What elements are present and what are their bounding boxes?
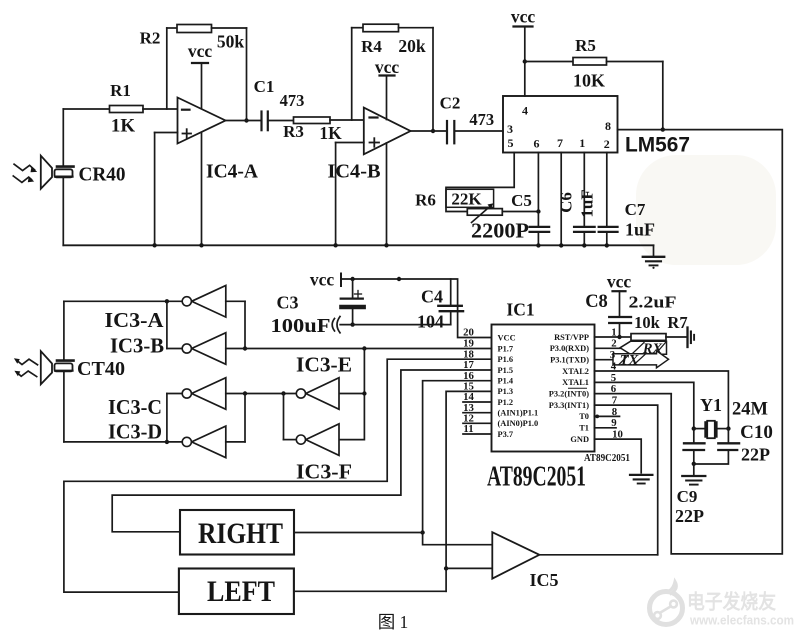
- junction IC4-B output node: [431, 129, 435, 133]
- svg-text:3: 3: [507, 122, 513, 136]
- svg-text:3: 3: [610, 349, 616, 361]
- svg-text:104: 104: [417, 312, 444, 332]
- svg-text:GND: GND: [570, 435, 589, 444]
- svg-text:IC3-C: IC3-C: [108, 395, 162, 419]
- svg-text:TX: TX: [620, 353, 639, 369]
- ground rail: [63, 244, 653, 246]
- capacitor C7: [599, 226, 618, 228]
- wire IC4-B output to C2: [411, 130, 447, 132]
- wire C1 to R3: [268, 120, 294, 122]
- wire R3 to IC4-B inverting input: [330, 119, 364, 121]
- svg-text:VCC: VCC: [498, 333, 516, 342]
- svg-text:R3: R3: [283, 122, 304, 141]
- inverter IC3-B: [192, 333, 226, 365]
- svg-text:P3.2(INT0): P3.2(INT0): [549, 390, 589, 399]
- junction IC4-A output node: [244, 118, 248, 122]
- svg-text:2: 2: [604, 137, 610, 151]
- svg-text:C3: C3: [277, 293, 299, 313]
- svg-text:C10: C10: [740, 422, 773, 443]
- resistor R1: [110, 106, 144, 113]
- svg-text:P1.2: P1.2: [498, 398, 514, 407]
- junction E/F output tie: [281, 391, 285, 395]
- IC1 left pin names: [498, 333, 539, 439]
- svg-text:1: 1: [611, 326, 616, 338]
- tone decoder LM567 body: [503, 96, 618, 153]
- resistor R6 variable: [467, 209, 502, 216]
- wire IC3-C input from IC3-E: [226, 393, 296, 395]
- svg-text:22P: 22P: [675, 506, 704, 526]
- svg-text:vcc: vcc: [375, 57, 400, 77]
- RX direction arrow: [620, 341, 667, 357]
- svg-text:1: 1: [579, 136, 585, 150]
- wire IC3-B output tie: [166, 301, 168, 348]
- wire IC3-F output tie: [283, 394, 285, 440]
- wire C5 to rail: [537, 232, 539, 246]
- wire IC1 pin 7 INT1 to IC5 output: [595, 405, 658, 555]
- svg-text:C1: C1: [254, 77, 275, 96]
- wire P1.3 net: [446, 391, 491, 591]
- capacitor C2: [446, 121, 448, 143]
- inverter IC3-A: [192, 286, 226, 318]
- junction C9 / C10 ground node: [692, 462, 696, 466]
- wire IC5 output: [539, 554, 657, 556]
- svg-text:IC1: IC1: [506, 300, 534, 320]
- inverter IC3-F: [306, 424, 339, 456]
- svg-text:4: 4: [522, 104, 528, 118]
- svg-text:100uF: 100uF: [271, 315, 331, 337]
- capacitor C4: [450, 279, 452, 305]
- wire IC1 pin 9 T1 stub: [595, 427, 617, 429]
- svg-text:7: 7: [557, 136, 563, 150]
- ground symbol below IC1: [630, 474, 652, 476]
- resistor R4 feedback: [351, 28, 353, 120]
- svg-text:6: 6: [534, 137, 540, 151]
- junction E input branch: [362, 391, 366, 395]
- svg-text:R1: R1: [110, 81, 131, 100]
- block LEFT: [179, 569, 294, 615]
- ground symbol rotated at R7: [686, 328, 688, 348]
- label box 22K of R6: [446, 189, 494, 207]
- wire IC1 pin 10 GND to ground: [595, 439, 642, 473]
- svg-text:LM567: LM567: [625, 134, 690, 157]
- wire IC1 pin 4 XTAL2 to crystal: [595, 371, 729, 429]
- svg-text:2: 2: [611, 338, 616, 350]
- wire P1.5 net to RIGHT box: [112, 370, 491, 532]
- svg-text:IC3-F: IC3-F: [296, 460, 352, 484]
- inverter IC3-E: [306, 378, 339, 410]
- svg-text:20k: 20k: [398, 36, 426, 56]
- junction XTAL1 / Y1 / C9: [692, 426, 696, 430]
- svg-text:vcc: vcc: [607, 272, 632, 292]
- LM567 pin numbers: [507, 104, 611, 152]
- wire branch to IC3-E and IC3-F inputs: [339, 349, 364, 440]
- wire LM567 pin 7 to rail: [560, 153, 562, 246]
- capacitor C5: [530, 226, 550, 228]
- svg-text:电子发烧友: 电子发烧友: [687, 590, 776, 614]
- svg-text:图 1: 图 1: [378, 612, 409, 632]
- wire IC3-D output to CT40 bottom: [64, 441, 182, 443]
- svg-text:P1.7: P1.7: [498, 344, 514, 353]
- wire IC1 pin 6 INT0: [595, 393, 672, 395]
- capacitor C8: [609, 316, 631, 318]
- ground symbol below C9: [693, 464, 695, 475]
- junction vcc / R5: [523, 59, 527, 63]
- svg-text:IC3-A: IC3-A: [105, 308, 165, 332]
- svg-text:C5: C5: [511, 191, 532, 210]
- wire LM567 pin 6 down: [537, 153, 539, 227]
- svg-text:1uF: 1uF: [578, 189, 597, 217]
- svg-text:22K: 22K: [451, 190, 482, 209]
- junction vcc / C3: [350, 277, 354, 281]
- wire R6 to pin6 node: [502, 211, 538, 213]
- svg-text:R7: R7: [667, 313, 687, 332]
- svg-text:C4: C4: [421, 287, 443, 307]
- svg-text:1uF: 1uF: [625, 220, 655, 240]
- wire CR40 bottom to ground rail: [62, 178, 64, 246]
- junction A/B input tie on P1.7 wire: [243, 346, 247, 350]
- wire IC1 pin 3 TXD: [595, 359, 614, 361]
- IC1 right pin numbers: [610, 326, 623, 440]
- capacitor C6: [574, 226, 595, 228]
- junction P1.7 / E-F input branch: [362, 346, 366, 350]
- svg-text:T0: T0: [579, 412, 589, 421]
- svg-text:P1.6: P1.6: [498, 355, 514, 364]
- inverter IC3-D: [192, 426, 226, 458]
- resistor R3: [294, 117, 331, 124]
- junction on vcc wire: [397, 277, 401, 281]
- wire CT40 top: [63, 301, 65, 360]
- svg-text:XTAL1: XTAL1: [562, 378, 589, 387]
- ground symbol at rail end: [653, 245, 655, 256]
- svg-text:22P: 22P: [741, 445, 770, 465]
- buffer IC5: [492, 532, 539, 578]
- IC1 left pin numbers: [463, 327, 474, 436]
- ultrasonic receiver CR40: [41, 156, 74, 189]
- CR40 incoming wave arrows: [13, 164, 37, 182]
- svg-text:1K: 1K: [111, 116, 136, 137]
- svg-text:IC3-E: IC3-E: [296, 353, 352, 377]
- wire C10 bottom to ground node: [694, 450, 729, 464]
- wire IC1 pin 8 T0 stub: [595, 415, 620, 417]
- wire LM567 pin 5 to R6: [446, 153, 514, 212]
- junction XTAL2 / Y1 / C10: [726, 426, 730, 430]
- svg-text:P3.3(INT1): P3.3(INT1): [549, 401, 589, 410]
- svg-text:C9: C9: [677, 487, 698, 506]
- svg-text:vcc: vcc: [511, 7, 536, 27]
- svg-text:AT89C2051: AT89C2051: [487, 462, 586, 493]
- wire P1.4 net to IC5 input 1: [423, 381, 493, 545]
- svg-text:R5: R5: [575, 36, 596, 55]
- wire IC3-A input: [226, 300, 245, 302]
- rail junction dots: [152, 243, 609, 247]
- svg-text:R2: R2: [140, 29, 161, 48]
- svg-text:1K: 1K: [319, 123, 342, 143]
- svg-text:CR40: CR40: [79, 164, 126, 186]
- wire IC1 pin 1 RST: [595, 336, 620, 338]
- wire IC1 pin 2 RXD: [595, 347, 621, 349]
- svg-text:473: 473: [280, 91, 305, 110]
- wire IC1 pin 5 XTAL1 to crystal: [595, 382, 694, 428]
- curved end marks: [337, 317, 340, 333]
- svg-text:(AIN0)P1.0: (AIN0)P1.0: [498, 419, 539, 428]
- svg-text:vcc: vcc: [310, 270, 335, 290]
- capacitor C3 electrolytic: [352, 279, 354, 298]
- IC1 pin 14-11 stubs: [463, 402, 492, 434]
- wire IC4-B plus input to rail: [336, 142, 364, 144]
- wire IC4-A negative supply to rail: [201, 133, 203, 245]
- IC1 right pin names: [549, 333, 589, 444]
- svg-text:50k: 50k: [217, 32, 245, 52]
- svg-text:vcc: vcc: [188, 41, 213, 61]
- capacitor C9: [693, 429, 695, 443]
- wire C3/C4 bottom: [340, 324, 451, 326]
- svg-text:C7: C7: [625, 200, 646, 219]
- svg-text:XTAL2: XTAL2: [562, 367, 589, 376]
- wire IC3-D input: [226, 441, 245, 443]
- svg-text:P1.3: P1.3: [498, 387, 514, 396]
- svg-text:P3.0(RXD): P3.0(RXD): [550, 344, 590, 353]
- svg-text:R6: R6: [415, 191, 436, 210]
- wire LEFT box output: [294, 590, 446, 592]
- crystal Y1: [694, 428, 705, 430]
- svg-text:IC4-A: IC4-A: [206, 161, 259, 183]
- svg-text:10k: 10k: [634, 313, 661, 332]
- microcontroller IC1 AT89C2051 body: [492, 325, 595, 452]
- svg-text:5: 5: [508, 136, 514, 150]
- svg-text:AT89C2051: AT89C2051: [584, 453, 630, 464]
- wire IC5 input 2: [446, 567, 492, 569]
- junction P1.3 / IC5 input 2: [444, 566, 448, 570]
- svg-text:RIGHT: RIGHT: [198, 517, 283, 550]
- svg-text:www.elecfans.com: www.elecfans.com: [689, 614, 794, 628]
- wire vcc to IC1 pin 20: [341, 279, 492, 338]
- svg-text:T1: T1: [579, 424, 589, 433]
- svg-text:RST/VPP: RST/VPP: [554, 333, 589, 342]
- svg-text:Y1: Y1: [700, 395, 722, 415]
- svg-text:C6: C6: [557, 192, 576, 213]
- junction C/D output tie: [165, 440, 169, 444]
- svg-text:R4: R4: [361, 37, 382, 56]
- svg-text:8: 8: [605, 119, 611, 133]
- svg-text:10K: 10K: [573, 71, 605, 91]
- CT40 outgoing wave arrows: [14, 358, 38, 376]
- wire C/D output tie: [166, 394, 168, 442]
- svg-text:2.2uF: 2.2uF: [629, 293, 677, 312]
- junction R6 / C5 / pin 6: [536, 209, 540, 213]
- wire IC4-B negative supply to rail: [386, 143, 388, 245]
- op-amp IC4-A: [178, 98, 226, 144]
- svg-text:(AIN1)P1.1: (AIN1)P1.1: [498, 409, 539, 418]
- resistor R5: [525, 61, 573, 63]
- wire P1.6 net to LEFT box: [64, 359, 492, 592]
- wire IC3-A/B outputs to CT40 top: [64, 300, 182, 302]
- wire IC4-A plus input to rail: [155, 132, 178, 134]
- wire C2 to LM567 pin 3: [455, 130, 504, 132]
- svg-text:IC3-D: IC3-D: [108, 420, 162, 444]
- resistor R2 feedback: [166, 28, 168, 109]
- svg-text:473: 473: [469, 110, 494, 129]
- svg-text:P3.7: P3.7: [498, 430, 514, 439]
- svg-text:IC5: IC5: [529, 570, 558, 590]
- wire IC4-A output to C1: [226, 120, 262, 122]
- wire RIGHT box output: [294, 532, 423, 534]
- wire CT40 bottom: [63, 372, 65, 442]
- wire CR40 top to R1 node: [62, 109, 64, 166]
- svg-text:C8: C8: [585, 292, 608, 312]
- capacitor C10: [727, 429, 729, 443]
- junction C/D input tie: [243, 391, 247, 395]
- svg-text:CT40: CT40: [77, 358, 125, 380]
- op-amp IC4-B: [364, 108, 411, 155]
- svg-text:24M: 24M: [732, 400, 768, 420]
- wire LM567 pin 1 down: [583, 153, 585, 227]
- svg-text:P1.5: P1.5: [498, 366, 514, 375]
- svg-text:IC3-B: IC3-B: [110, 334, 164, 358]
- capacitor C1: [260, 112, 262, 131]
- junction RST node: [617, 335, 621, 339]
- junction C3 bottom: [350, 322, 354, 326]
- resistor R7: [620, 336, 632, 338]
- junction P1.4 / RIGHT output: [420, 530, 424, 534]
- wire LM567 pin 2 down: [606, 153, 608, 227]
- junction A/B output tie: [165, 299, 169, 303]
- ultrasonic transmitter CT40: [41, 351, 74, 384]
- wire P1.7 to IC3-A/B inputs and IC1 pin 19: [226, 348, 492, 350]
- TX direction arrow: [613, 351, 669, 369]
- wire R1 to IC4-A inverting input: [143, 108, 178, 110]
- inverter IC3-C: [192, 378, 226, 410]
- svg-text:P1.4: P1.4: [498, 377, 514, 386]
- wire IC3-C output: [167, 393, 182, 395]
- watermark logo: [650, 582, 683, 625]
- svg-text:P3.1(TXD): P3.1(TXD): [550, 356, 589, 365]
- block RIGHT: [180, 510, 294, 555]
- junction R5 / output: [661, 127, 665, 131]
- svg-text:C2: C2: [440, 94, 461, 113]
- wire LM567 pin 8 output to right edge down to P3.2: [595, 130, 783, 554]
- svg-text:LEFT: LEFT: [207, 575, 275, 608]
- svg-text:2200P: 2200P: [471, 219, 529, 243]
